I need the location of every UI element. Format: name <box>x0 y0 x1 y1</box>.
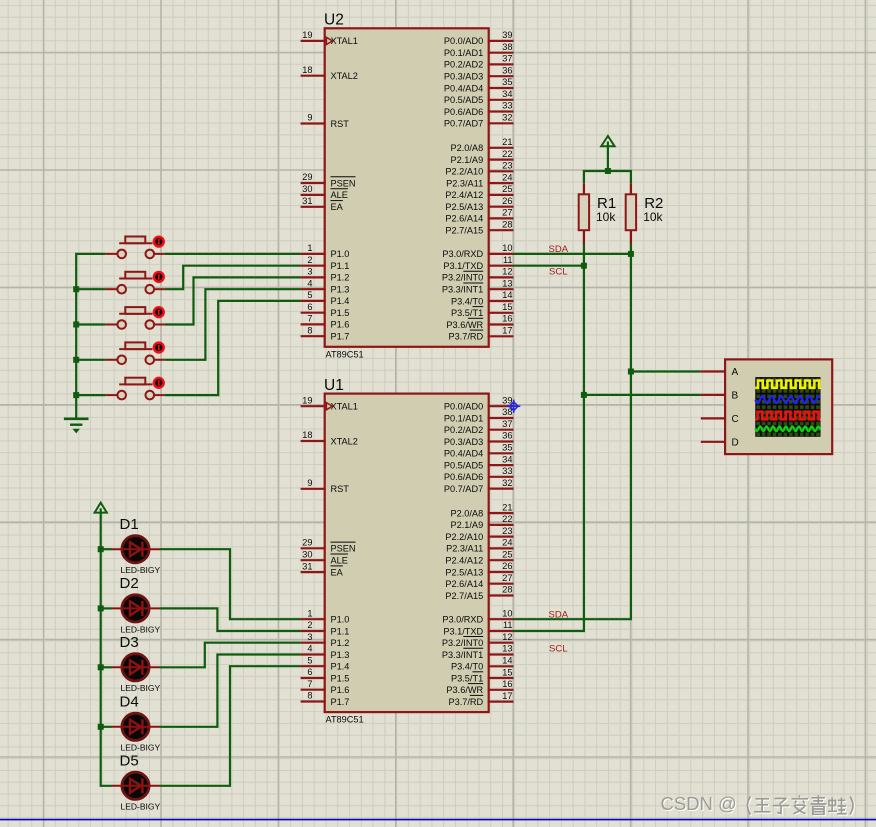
svg-text:37: 37 <box>502 419 512 429</box>
svg-text:10: 10 <box>502 608 512 618</box>
svg-text:P0.4/AD4: P0.4/AD4 <box>444 449 483 459</box>
ground <box>64 419 89 433</box>
svg-text:P2.7/A15: P2.7/A15 <box>445 591 483 601</box>
svg-text:P0.0/AD0: P0.0/AD0 <box>444 36 483 46</box>
svg-text:4: 4 <box>307 644 312 654</box>
oscilloscope input pins A,B,C,D <box>701 367 739 448</box>
svg-text:P2.4/A12: P2.4/A12 <box>445 190 483 200</box>
svg-text:AT89C51: AT89C51 <box>326 349 364 359</box>
svg-text:9: 9 <box>307 113 312 123</box>
wire: switch common bus to ground <box>76 254 105 418</box>
svg-text:CSDN @: CSDN @ <box>661 793 737 814</box>
svg-text:34: 34 <box>502 89 512 99</box>
LED D5 (LED-BIGY) <box>112 753 161 812</box>
svg-text:D2: D2 <box>120 575 139 592</box>
svg-text:D: D <box>732 437 739 448</box>
junction on bus at y=359.8 <box>73 357 79 363</box>
svg-text:P2.6/A14: P2.6/A14 <box>445 214 483 224</box>
svg-text:P1.5: P1.5 <box>331 308 350 318</box>
svg-text:24: 24 <box>502 172 512 182</box>
svg-text:P3.6/WR: P3.6/WR <box>446 685 483 695</box>
wire: VCC rail to R1 and R2 tops <box>584 171 631 183</box>
svg-text:P3.7/RD: P3.7/RD <box>448 697 483 707</box>
svg-text:P3.6/WR: P3.6/WR <box>446 320 483 330</box>
svg-text:17: 17 <box>502 691 512 701</box>
svg-text:P1.1: P1.1 <box>331 261 350 271</box>
junction SCL at scope input B <box>581 392 587 398</box>
svg-text:SCL: SCL <box>549 266 567 277</box>
svg-text:13: 13 <box>502 644 512 654</box>
svg-text:19: 19 <box>302 395 312 405</box>
svg-text:32: 32 <box>502 478 512 488</box>
svg-text:32: 32 <box>502 112 512 122</box>
svg-text:P0.2/AD2: P0.2/AD2 <box>444 60 483 70</box>
junction on LED bus at y=726.8 <box>98 724 104 730</box>
IC U2 AT89C51 body <box>324 12 489 360</box>
svg-text:P0.1/AD1: P0.1/AD1 <box>444 413 483 423</box>
waveform channel B (blue sine) <box>755 396 820 403</box>
svg-text:P1.0: P1.0 <box>331 615 350 625</box>
power symbol VCC above LEDs <box>95 503 107 550</box>
svg-text:P3.2/INT0: P3.2/INT0 <box>442 273 483 283</box>
svg-text:P3.3/INT1: P3.3/INT1 <box>442 650 483 660</box>
wire: LED D4 to U1 pin4 P1.3 <box>160 655 301 727</box>
svg-text:D5: D5 <box>120 753 139 770</box>
svg-text:1: 1 <box>307 608 312 618</box>
power symbol VCC above R1/R2 <box>601 136 614 171</box>
svg-text:P1.4: P1.4 <box>331 662 350 672</box>
svg-text:11: 11 <box>503 620 513 630</box>
svg-text:25: 25 <box>502 549 512 559</box>
svg-text:P2.6/A14: P2.6/A14 <box>445 579 483 589</box>
svg-text:P3.0/RXD: P3.0/RXD <box>442 615 483 625</box>
svg-text:P3.7/RD: P3.7/RD <box>448 332 483 342</box>
svg-text:21: 21 <box>502 502 512 512</box>
svg-text:17: 17 <box>502 325 512 335</box>
svg-text:EA: EA <box>331 567 344 577</box>
svg-text:19: 19 <box>302 30 312 40</box>
svg-text:14: 14 <box>502 655 512 665</box>
svg-text:P0.5/AD5: P0.5/AD5 <box>444 460 483 470</box>
svg-text:P2.3/A11: P2.3/A11 <box>446 544 483 554</box>
wire: switch3 to U2 pin3 P1.2 <box>165 277 301 324</box>
svg-text:P1.6: P1.6 <box>331 685 350 695</box>
IC U1 AT89C51 body <box>324 377 489 725</box>
svg-text:P1.7: P1.7 <box>331 697 350 707</box>
svg-text:LED-BIGY: LED-BIGY <box>121 802 161 812</box>
svg-text:P2.2/A10: P2.2/A10 <box>445 532 483 542</box>
svg-text:10: 10 <box>502 243 512 253</box>
svg-text:P3.1/TXD: P3.1/TXD <box>443 626 483 636</box>
svg-text:P3.4/T0: P3.4/T0 <box>451 296 483 306</box>
junction on bus at y=289.2 <box>73 286 79 292</box>
svg-text:LED-BIGY: LED-BIGY <box>121 743 161 753</box>
svg-text:31: 31 <box>302 561 312 571</box>
svg-text:8: 8 <box>307 691 312 701</box>
svg-text:U1: U1 <box>324 377 344 394</box>
svg-text:28: 28 <box>502 585 512 595</box>
svg-text:26: 26 <box>502 196 512 206</box>
oscilloscope screen <box>755 377 820 437</box>
svg-text:P1.3: P1.3 <box>331 285 350 295</box>
waveform channel D (green sine) <box>755 426 820 431</box>
svg-text:37: 37 <box>502 54 512 64</box>
wire: switch2 to U2 pin2 P1.1 <box>165 266 301 290</box>
svg-text:27: 27 <box>502 573 512 583</box>
svg-text:3: 3 <box>307 632 312 642</box>
svg-text:11: 11 <box>503 255 513 265</box>
wire: bus branch to switch 3 <box>75 323 105 325</box>
svg-text:P0.3/AD3: P0.3/AD3 <box>444 437 483 447</box>
waveform channel A (yellow square) <box>755 381 820 388</box>
push button switch 3 <box>105 307 165 329</box>
svg-text:28: 28 <box>502 219 512 229</box>
push button switch 4 <box>105 342 165 364</box>
LED D1 (LED-BIGY) <box>112 516 161 575</box>
svg-text:22: 22 <box>502 149 512 159</box>
svg-text:30: 30 <box>302 549 312 559</box>
svg-text:29: 29 <box>302 172 312 182</box>
push button switch 5 <box>105 378 165 400</box>
svg-text:18: 18 <box>302 430 312 440</box>
svg-text:18: 18 <box>302 65 312 75</box>
svg-text:21: 21 <box>502 137 512 147</box>
svg-text:16: 16 <box>502 314 512 324</box>
wire: bus branch to LED D4 <box>101 726 112 728</box>
svg-text:P0.7/AD7: P0.7/AD7 <box>444 484 483 494</box>
svg-text:36: 36 <box>502 431 512 441</box>
mouse cursor cross (blue) at U1 pin 39 <box>507 400 520 413</box>
svg-text:4: 4 <box>307 278 312 288</box>
svg-text:22: 22 <box>502 514 512 524</box>
svg-text:23: 23 <box>502 161 512 171</box>
junction on LED bus at y=549.2 <box>98 546 104 552</box>
wire: switch5 to U2 pin5 P1.4 <box>165 301 301 395</box>
svg-text:P3.2/INT0: P3.2/INT0 <box>442 638 483 648</box>
svg-text:13: 13 <box>502 278 512 288</box>
junction SCL at U2 pin11 <box>581 263 587 269</box>
svg-text:P3.4/T0: P3.4/T0 <box>451 662 483 672</box>
svg-text:39: 39 <box>502 30 512 40</box>
wire: LED D2 to U1 pin2 P1.1 <box>160 608 301 631</box>
watermark CSDN @ (wang zi bian qing wa) <box>661 793 855 816</box>
svg-text:PSEN: PSEN <box>331 544 356 554</box>
svg-text:A: A <box>732 367 739 378</box>
svg-text:P2.4/A12: P2.4/A12 <box>445 555 483 565</box>
svg-text:SDA: SDA <box>549 610 569 621</box>
svg-text:36: 36 <box>502 65 512 75</box>
waveform channel C (red square) <box>755 412 820 420</box>
svg-text:12: 12 <box>502 632 512 642</box>
junction on bus at y=395.1 <box>73 392 79 398</box>
svg-text:3: 3 <box>307 267 312 277</box>
LED D4 (LED-BIGY) <box>112 694 161 753</box>
svg-text:35: 35 <box>502 77 512 87</box>
svg-text:P0.4/AD4: P0.4/AD4 <box>444 83 483 93</box>
svg-text:6: 6 <box>307 667 312 677</box>
svg-text:2: 2 <box>307 255 312 265</box>
svg-text:RST: RST <box>331 484 350 494</box>
svg-text:P1.6: P1.6 <box>331 320 350 330</box>
svg-text:P1.4: P1.4 <box>331 296 350 306</box>
svg-text:LED-BIGY: LED-BIGY <box>121 624 161 634</box>
svg-text:P2.5/A13: P2.5/A13 <box>445 567 483 577</box>
svg-text:SDA: SDA <box>549 244 569 255</box>
svg-text:29: 29 <box>302 538 312 548</box>
svg-text:D4: D4 <box>120 694 139 711</box>
svg-text:12: 12 <box>502 267 512 277</box>
svg-text:P1.3: P1.3 <box>331 650 350 660</box>
svg-text:P0.3/AD3: P0.3/AD3 <box>444 72 483 82</box>
wire: LED D1 to U1 pin1 P1.0 <box>160 549 301 619</box>
svg-text:8: 8 <box>307 325 312 335</box>
wire: bus branch to LED D1 <box>101 548 112 550</box>
junction SDA at scope input A <box>628 369 634 375</box>
wire: LED D5 to U1 pin5 P1.4 <box>160 666 301 786</box>
svg-text:LED-BIGY: LED-BIGY <box>121 683 161 693</box>
wire: bus branch to switch 5 <box>75 394 105 396</box>
svg-text:AT89C51: AT89C51 <box>326 715 364 725</box>
svg-text:15: 15 <box>502 667 512 677</box>
svg-text:31: 31 <box>302 196 312 206</box>
svg-text:26: 26 <box>502 561 512 571</box>
wire: LED supply bus <box>101 549 112 786</box>
svg-text:16: 16 <box>502 679 512 689</box>
svg-text:XTAL2: XTAL2 <box>331 71 358 81</box>
svg-text:LED-BIGY: LED-BIGY <box>121 565 161 575</box>
svg-text:15: 15 <box>502 302 512 312</box>
svg-text:P1.0: P1.0 <box>331 249 350 259</box>
svg-text:C: C <box>732 414 739 425</box>
svg-text:P1.7: P1.7 <box>331 332 350 342</box>
oscilloscope body <box>725 359 832 454</box>
svg-text:XTAL2: XTAL2 <box>331 436 358 446</box>
svg-text:SCL: SCL <box>549 643 567 654</box>
junction at VCC rail <box>605 168 611 174</box>
wire: bus branch to LED D3 <box>101 666 112 668</box>
svg-text:P0.1/AD1: P0.1/AD1 <box>444 48 483 58</box>
svg-text:P0.6/AD6: P0.6/AD6 <box>444 107 483 117</box>
svg-text:2: 2 <box>307 620 312 630</box>
svg-text:PSEN: PSEN <box>331 178 356 188</box>
svg-text:33: 33 <box>502 101 512 111</box>
wire: LED D3 to U1 pin3 P1.2 <box>160 643 301 668</box>
svg-text:P3.1/TXD: P3.1/TXD <box>443 261 483 271</box>
svg-text:P2.7/A15: P2.7/A15 <box>445 225 483 235</box>
svg-text:14: 14 <box>502 290 512 300</box>
svg-text:ALE: ALE <box>331 190 348 200</box>
svg-text:P3.0/RXD: P3.0/RXD <box>442 249 483 259</box>
svg-text:EA: EA <box>331 202 344 212</box>
wire: switch4 to U2 pin4 P1.3 <box>165 289 301 360</box>
svg-text:U2: U2 <box>324 12 344 29</box>
svg-text:10k: 10k <box>643 210 663 224</box>
svg-text:ALE: ALE <box>331 556 348 566</box>
svg-text:B: B <box>732 390 739 401</box>
svg-text:P1.2: P1.2 <box>331 638 350 648</box>
wire: switch1 to U2 pin1 P1.0 <box>165 253 301 255</box>
wire: bus branch to switch 2 <box>75 288 105 290</box>
junction on LED bus at y=667.3 <box>98 664 104 670</box>
svg-text:6: 6 <box>307 302 312 312</box>
svg-text:P3.3/INT1: P3.3/INT1 <box>442 285 483 295</box>
svg-text:P0.5/AD5: P0.5/AD5 <box>444 95 483 105</box>
junction on bus at y=324.5 <box>73 322 79 328</box>
wire: bus branch to LED D2 <box>101 607 112 609</box>
junction on LED bus at y=608.4 <box>98 605 104 611</box>
svg-text:RST: RST <box>331 119 350 129</box>
svg-text:P2.0/A8: P2.0/A8 <box>450 143 483 153</box>
svg-text:P1.1: P1.1 <box>331 626 350 636</box>
U1 left pins (XTAL1,XTAL2,RST,PSEN,ALE,EA,P1.0-P1.7) <box>301 395 358 706</box>
svg-text:XTAL1: XTAL1 <box>331 402 358 412</box>
svg-text:7: 7 <box>307 314 312 324</box>
svg-text:P1.2: P1.2 <box>331 273 350 283</box>
LED D3 (LED-BIGY) <box>112 634 161 693</box>
U1 right pins (P0, P2, P3 ports) <box>442 395 514 706</box>
svg-text:P2.2/A10: P2.2/A10 <box>445 167 483 177</box>
svg-text:27: 27 <box>502 208 512 218</box>
svg-text:5: 5 <box>307 290 312 300</box>
svg-text:P2.1/A9: P2.1/A9 <box>450 520 483 530</box>
U2 left pins (XTAL1,XTAL2,RST,PSEN,ALE,EA,P1.0-P1.7) <box>301 30 358 341</box>
svg-text:P2.0/A8: P2.0/A8 <box>450 508 483 518</box>
svg-text:P3.5/T1: P3.5/T1 <box>451 308 483 318</box>
push button switch 1 <box>105 237 165 259</box>
svg-text:10k: 10k <box>596 210 616 224</box>
svg-text:9: 9 <box>307 478 312 488</box>
svg-text:P2.3/A11: P2.3/A11 <box>446 178 483 188</box>
svg-text:5: 5 <box>307 655 312 665</box>
resistor R1 10k <box>579 183 617 243</box>
svg-text:25: 25 <box>502 184 512 194</box>
push button switch 2 <box>105 272 165 294</box>
svg-text:P2.5/A13: P2.5/A13 <box>445 202 483 212</box>
svg-text:35: 35 <box>502 442 512 452</box>
net SCL: U2 pin11, R1 bottom, scope B, U1 pin11 <box>514 243 701 632</box>
wire: bus branch to switch 4 <box>75 359 105 361</box>
svg-text:P3.5/T1: P3.5/T1 <box>451 673 483 683</box>
svg-text:33: 33 <box>502 466 512 476</box>
svg-text:D1: D1 <box>120 516 139 533</box>
junction SDA at U2 pin10 <box>628 251 634 257</box>
svg-text:P0.0/AD0: P0.0/AD0 <box>444 402 483 412</box>
svg-text:P0.7/AD7: P0.7/AD7 <box>444 119 483 129</box>
svg-text:23: 23 <box>502 526 512 536</box>
svg-text:P0.2/AD2: P0.2/AD2 <box>444 425 483 435</box>
svg-text:38: 38 <box>502 42 512 52</box>
svg-text:D3: D3 <box>120 634 139 651</box>
svg-text:30: 30 <box>302 184 312 194</box>
svg-text:34: 34 <box>502 454 512 464</box>
U2 right pins (P0, P2, P3 ports) <box>442 30 514 341</box>
svg-text:24: 24 <box>502 538 512 548</box>
svg-text:P1.5: P1.5 <box>331 673 350 683</box>
svg-text:7: 7 <box>307 679 312 689</box>
svg-text:P0.6/AD6: P0.6/AD6 <box>444 472 483 482</box>
svg-text:XTAL1: XTAL1 <box>331 36 358 46</box>
net SDA: U2 pin10, R2 bottom, scope A, U1 pin10 <box>514 243 701 620</box>
LED D2 (LED-BIGY) <box>112 575 161 634</box>
svg-text:1: 1 <box>307 243 312 253</box>
resistor R2 10k <box>626 183 664 243</box>
svg-text:P2.1/A9: P2.1/A9 <box>450 155 483 165</box>
